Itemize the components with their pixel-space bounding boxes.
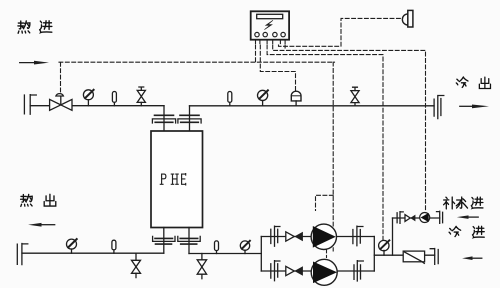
- flow arrow hot-in: [20, 61, 49, 65]
- flange F6 (branch2 left): [271, 261, 280, 281]
- pipe: hot inlet top-left: [30, 105, 164, 107]
- flange F3 (hot outlet end): [17, 244, 28, 265]
- controller pins: [256, 40, 286, 44]
- pump P2: [311, 259, 337, 285]
- check valve branch2: [286, 266, 303, 275]
- pressure sensor gauge G5: [379, 240, 390, 255]
- PHE top-right connection flanges: [178, 106, 201, 131]
- flow arrow makeup: [457, 215, 478, 219]
- label 冷出 (cold out): [456, 77, 490, 88]
- flange F8 (cold inlet end): [430, 249, 438, 265]
- PHE bottom-left connection flanges: [153, 228, 175, 254]
- pressure gauge G2: [258, 90, 268, 106]
- flow arrow cold-in: [462, 256, 482, 260]
- dashed signal: control valve - controller - pump1: [59, 45, 335, 258]
- drain valve V5: [197, 254, 206, 279]
- label 补水进 (makeup water in): [444, 197, 483, 209]
- alarm horn: [402, 10, 413, 27]
- PHE top-left connection flanges: [152, 106, 175, 131]
- dashed signal: controller to makeup pump: [273, 45, 426, 212]
- makeup junction riser: [392, 218, 394, 255]
- control valve V1 with actuator: [50, 94, 72, 111]
- pipe: cold return bottom-middle: [189, 253, 261, 255]
- thermometer T3: [112, 240, 116, 253]
- pump branch 1 pipe: [261, 236, 374, 238]
- pipe: makeup water line: [393, 217, 440, 219]
- PHE bottom-right connection flanges: [178, 228, 200, 254]
- label 冷进 (cold in): [449, 226, 484, 237]
- flange F2 (cold outlet end): [434, 96, 444, 119]
- strainer: [403, 251, 424, 263]
- flange F9 (makeup left): [397, 212, 403, 224]
- pump branch 2 pipe: [261, 270, 374, 272]
- flange F5 (branch1 right): [353, 226, 363, 246]
- vent valve V3: [351, 87, 359, 106]
- makeup pump P3: [420, 213, 430, 223]
- label 热出 (hot out): [21, 194, 56, 206]
- temperature sensor (dome): [291, 91, 301, 106]
- controller U1: [251, 11, 289, 39]
- flange F10 (makeup right): [437, 211, 443, 223]
- pump P1: [311, 224, 336, 249]
- pump manifold left header: [260, 237, 262, 272]
- pump manifold right header: [373, 237, 375, 272]
- dashed signal: controller to pressure sensor G5: [267, 45, 383, 241]
- thermometer T1: [112, 92, 116, 106]
- dashed signal: controller to horn: [279, 18, 401, 48]
- makeup check valve: [405, 215, 415, 222]
- pipe: hot outlet bottom-left: [22, 252, 164, 254]
- flange F1 (hot inlet end): [24, 95, 36, 115]
- flow arrow cold-out: [460, 105, 489, 109]
- pipe: cold outlet top-right: [190, 105, 435, 107]
- flow arrow hot-out: [28, 223, 55, 227]
- thermometer T2: [228, 92, 232, 106]
- flange F7 (branch2 right): [354, 261, 363, 281]
- thermometer T4: [215, 241, 219, 254]
- vent valve V2: [137, 87, 145, 106]
- flange F4 (branch1 left): [271, 226, 280, 246]
- pressure gauge G1: [83, 90, 93, 106]
- PHE label text: [160, 174, 185, 185]
- dashed signal: controller to temp sensor: [260, 45, 295, 91]
- check valve branch1: [286, 232, 303, 241]
- drain valve V4: [132, 253, 141, 277]
- pressure gauge G4: [240, 241, 250, 254]
- pipe: pump outlet to cold-in: [374, 254, 434, 256]
- label 热进 (hot in): [18, 21, 52, 33]
- pressure gauge G3: [67, 239, 77, 253]
- PHE heat exchanger body: [151, 131, 203, 228]
